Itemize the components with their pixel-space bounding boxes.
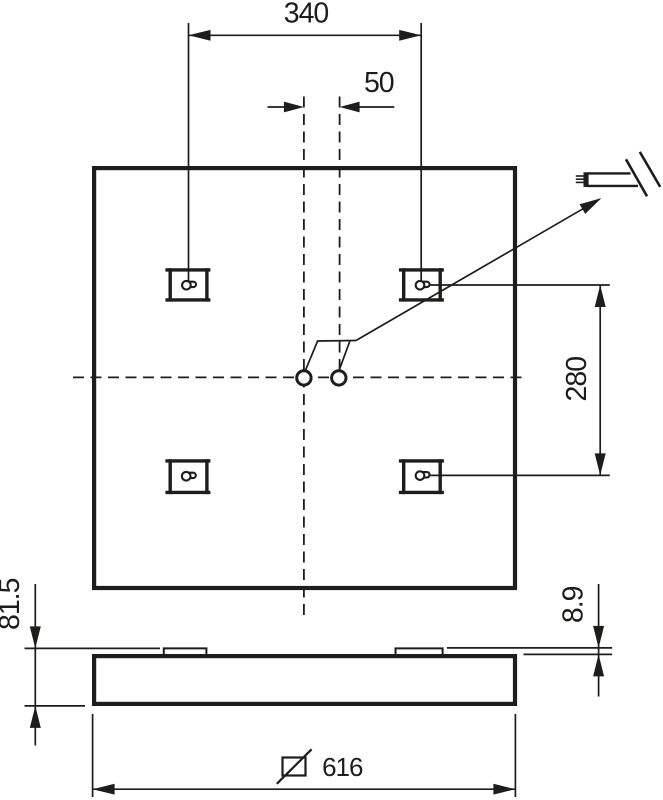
center line horizontal (dashed) [73,376,527,378]
svg-text:616: 616 [322,752,363,782]
extension line 81.5 bottom [25,705,86,707]
cable wire strands [576,175,585,177]
dimension 616 line [93,788,516,790]
svg-text:8.9: 8.9 [558,586,590,623]
svg-text:81.5: 81.5 [0,578,26,630]
leader from right circle [339,341,350,371]
extension line top (280) [429,284,610,286]
extension line 8.9 bottom [524,653,613,655]
cable end cap [584,172,589,187]
dimension 280 line [599,285,601,475]
extension line right (340) [420,23,422,284]
dimension 50 left tail+arrow [268,106,291,108]
mounting hole square top-left [165,268,210,301]
cable break line 1 [626,159,647,196]
cable break line 2 [640,152,660,187]
svg-text:280: 280 [561,357,593,402]
extension line left (340) [188,23,190,284]
dimension 340 left arrow [189,30,211,41]
leader from left circle [305,341,356,371]
svg-text:340: 340 [284,0,329,29]
side view slab [94,656,515,704]
extension line bottom (280) [429,474,610,476]
extension line 81.5 top [25,647,161,649]
dimension 8.9 line [598,584,600,697]
keyhole bottom-left [182,472,196,481]
center line vertical A (dashed) [303,97,305,617]
dimension 340 right arrow [399,30,421,41]
extension line 616 left [92,714,94,797]
cable symbol body [587,172,630,174]
mounting hole square bottom-left [165,459,210,494]
dimension 81.5 line [34,584,36,746]
leader arrowhead [580,198,602,214]
feed point circle right [332,371,346,385]
feed point circle left [297,371,311,385]
leader diagonal to cable [356,199,600,340]
mounting hole square bottom-right [399,459,444,494]
slab tab right [396,648,443,656]
keyhole top-left [182,281,196,290]
svg-text:50: 50 [364,67,394,99]
dimension 340 line [189,34,422,36]
extension line 616 right [514,714,516,797]
mounting hole square top-right [399,268,444,301]
keyhole bottom-right [416,471,430,480]
square-slash symbol [283,758,306,776]
dimension 50 right tail+arrow [353,106,394,108]
keyhole top-right [416,281,430,290]
extension line 8.9 top [447,647,612,649]
slab tab left [164,648,207,656]
center line vertical B (dashed, 50 offset) [339,97,341,371]
panel outline (top view square) [94,168,515,588]
